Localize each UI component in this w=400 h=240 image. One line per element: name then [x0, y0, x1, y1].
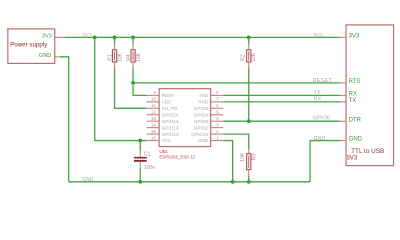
svg-text:U$1: U$1: [159, 149, 168, 154]
svg-text:ADC: ADC: [162, 100, 173, 105]
U$1 pin 6 GPIO5: [194, 103, 223, 111]
svg-text:RXD: RXD: [198, 100, 209, 105]
svg-text:3V3: 3V3: [42, 34, 52, 40]
wire 3V3 rail: [65, 36, 340, 38]
U$1 pin 2 GPIO15: [191, 129, 223, 137]
wire R3 to GND rail: [248, 176, 250, 182]
svg-text:R3: R3: [251, 154, 257, 161]
U$1 pin 7 RXD: [198, 97, 223, 105]
U$1 pin 4 GPIO0: [194, 116, 223, 124]
TTL to USB converter module box: [346, 25, 394, 166]
svg-text:11: 11: [151, 103, 156, 108]
svg-text:3V3: 3V3: [347, 155, 358, 161]
svg-text:TX: TX: [349, 98, 357, 104]
svg-text:TXD: TXD: [199, 93, 209, 98]
svg-text:10K: 10K: [251, 52, 257, 62]
svg-text:4: 4: [216, 116, 219, 121]
junction node GND rail at C1: [138, 180, 142, 184]
TTL module pin 3V3: [340, 34, 360, 40]
wire RESET to REST pin 9: [133, 83, 147, 96]
junction node GND rail at R3: [247, 180, 251, 184]
U$1 pin 12 GPIO16: [147, 110, 179, 118]
svg-text:100n: 100n: [144, 165, 156, 171]
junction node on 3V3 rail at R2: [247, 36, 251, 40]
svg-text:GPIO0: GPIO0: [194, 119, 209, 124]
svg-text:3V3: 3V3: [349, 34, 360, 40]
svg-text:GND: GND: [198, 138, 209, 143]
wire R2 down to GPIO0 net: [248, 68, 250, 121]
wire GPIO0 to DTR: [223, 120, 340, 122]
svg-text:C1: C1: [144, 151, 151, 157]
svg-text:CH_PD: CH_PD: [162, 106, 179, 111]
U$1 pin 11 CH_PD: [147, 103, 179, 111]
U$1 pin 10 ADC: [147, 97, 173, 105]
TTL module pin RX: [340, 92, 357, 98]
resistor R3 10K: [240, 149, 257, 176]
svg-text:GPIO16: GPIO16: [162, 112, 179, 117]
svg-text:GND: GND: [82, 177, 94, 183]
svg-text:12: 12: [151, 110, 157, 115]
svg-text:9: 9: [153, 90, 156, 95]
TTL module pin GND: [340, 136, 363, 142]
svg-text:10K: 10K: [136, 52, 142, 62]
svg-text:GPIO0: GPIO0: [313, 115, 330, 121]
wire GND rail: [69, 181, 310, 183]
svg-text:R1: R1: [108, 54, 114, 61]
resistor R4 10K: [126, 37, 142, 68]
svg-text:GPIO12: GPIO12: [162, 125, 179, 130]
capacitor C1 100n: [134, 141, 155, 182]
svg-text:5: 5: [216, 110, 219, 115]
U$1 pin 5 GPIO4: [194, 110, 223, 118]
svg-text:RX: RX: [349, 92, 357, 98]
svg-text:RESET: RESET: [313, 78, 333, 84]
svg-text:GPIO14: GPIO14: [162, 119, 179, 124]
svg-text:6: 6: [216, 103, 219, 108]
svg-text:2: 2: [216, 129, 219, 134]
wire GND rail up to TTL GND: [310, 141, 340, 182]
svg-text:3V3: 3V3: [82, 33, 91, 39]
svg-text:R4: R4: [126, 54, 132, 61]
U$1 pin 9 REST: [147, 90, 175, 98]
svg-text:3V3: 3V3: [313, 33, 322, 39]
TTL module pin RTS: [340, 79, 361, 85]
U$1 pin 3 GPIO2: [194, 122, 223, 130]
svg-text:15: 15: [151, 129, 157, 134]
U$1 pin 16 VCC: [147, 135, 173, 143]
wire power GND down: [60, 57, 69, 182]
svg-text:GPIO2: GPIO2: [194, 125, 209, 130]
svg-text:GND: GND: [39, 53, 51, 59]
svg-text:ESP8266_ESP-12: ESP8266_ESP-12: [159, 154, 196, 159]
junction node GPIO0 at R2: [247, 119, 251, 123]
svg-text:GPIO13: GPIO13: [162, 132, 179, 137]
TTL module pin DTR: [340, 117, 362, 123]
svg-text:TTL to USB: TTL to USB: [351, 148, 384, 155]
resistor R1 10K: [108, 37, 124, 68]
svg-text:3: 3: [216, 122, 219, 127]
wire R1 to CH_PD pin 11: [115, 68, 147, 108]
wire 3V3 to VCC pin 16: [95, 37, 147, 140]
wire R4 down to RESET net: [132, 68, 134, 83]
junction node on 3V3 rail at R4: [131, 36, 135, 40]
svg-text:GND: GND: [349, 136, 363, 142]
junction node on 3V3 rail at VCC feed: [93, 36, 97, 40]
svg-text:RTS: RTS: [349, 79, 361, 85]
svg-text:DTR: DTR: [349, 117, 362, 123]
junction node RESET at R4: [131, 81, 135, 85]
resistor R2 10K: [241, 37, 257, 68]
junction node at C1 top: [138, 139, 142, 143]
wire RXD to TX: [223, 101, 340, 103]
svg-text:VCC: VCC: [162, 138, 173, 143]
junction node on 3V3 rail at R1: [113, 36, 117, 40]
U$1 pin 8 TXD: [199, 90, 223, 98]
TTL module pin TX: [340, 98, 357, 104]
svg-text:14: 14: [151, 122, 157, 127]
wire IC GND pin 1 to GND rail: [223, 141, 232, 182]
U$1 pin 15 GPIO13: [147, 129, 179, 137]
svg-text:8: 8: [216, 90, 219, 95]
svg-text:16: 16: [151, 135, 157, 140]
svg-text:13: 13: [151, 116, 157, 121]
power supply pin 3V3 stub: [55, 36, 65, 38]
svg-text:TX: TX: [314, 90, 321, 96]
svg-text:GPIO4: GPIO4: [194, 112, 209, 117]
svg-text:7: 7: [216, 97, 219, 102]
power supply module SUPPLY1: [8, 29, 55, 64]
U$1 pin 1 GND: [198, 135, 224, 143]
svg-text:10K: 10K: [240, 152, 246, 162]
svg-text:1: 1: [216, 135, 219, 140]
U$1 pin 14 GPIO12: [147, 122, 179, 130]
svg-text:GPIO5: GPIO5: [194, 106, 209, 111]
svg-text:Power supply: Power supply: [10, 42, 48, 49]
svg-text:10K: 10K: [118, 52, 124, 62]
svg-text:GPIO15: GPIO15: [191, 132, 208, 137]
svg-text:GND: GND: [314, 136, 326, 142]
svg-text:10: 10: [151, 97, 157, 102]
svg-text:RX: RX: [314, 97, 322, 103]
junction node GND rail at IC GND drop: [231, 180, 235, 184]
wire TXD to RX: [223, 94, 340, 96]
wire RESET net to RTS: [133, 82, 340, 84]
U$1 pin 13 GPIO14: [147, 116, 179, 124]
power supply pin GND stub: [55, 56, 60, 58]
svg-text:R2: R2: [241, 54, 247, 61]
wire GPIO15 to R3: [223, 134, 249, 149]
svg-text:REST: REST: [162, 93, 175, 98]
op-amp U$1 ESP8266_ESP-12 module box: [159, 89, 211, 160]
